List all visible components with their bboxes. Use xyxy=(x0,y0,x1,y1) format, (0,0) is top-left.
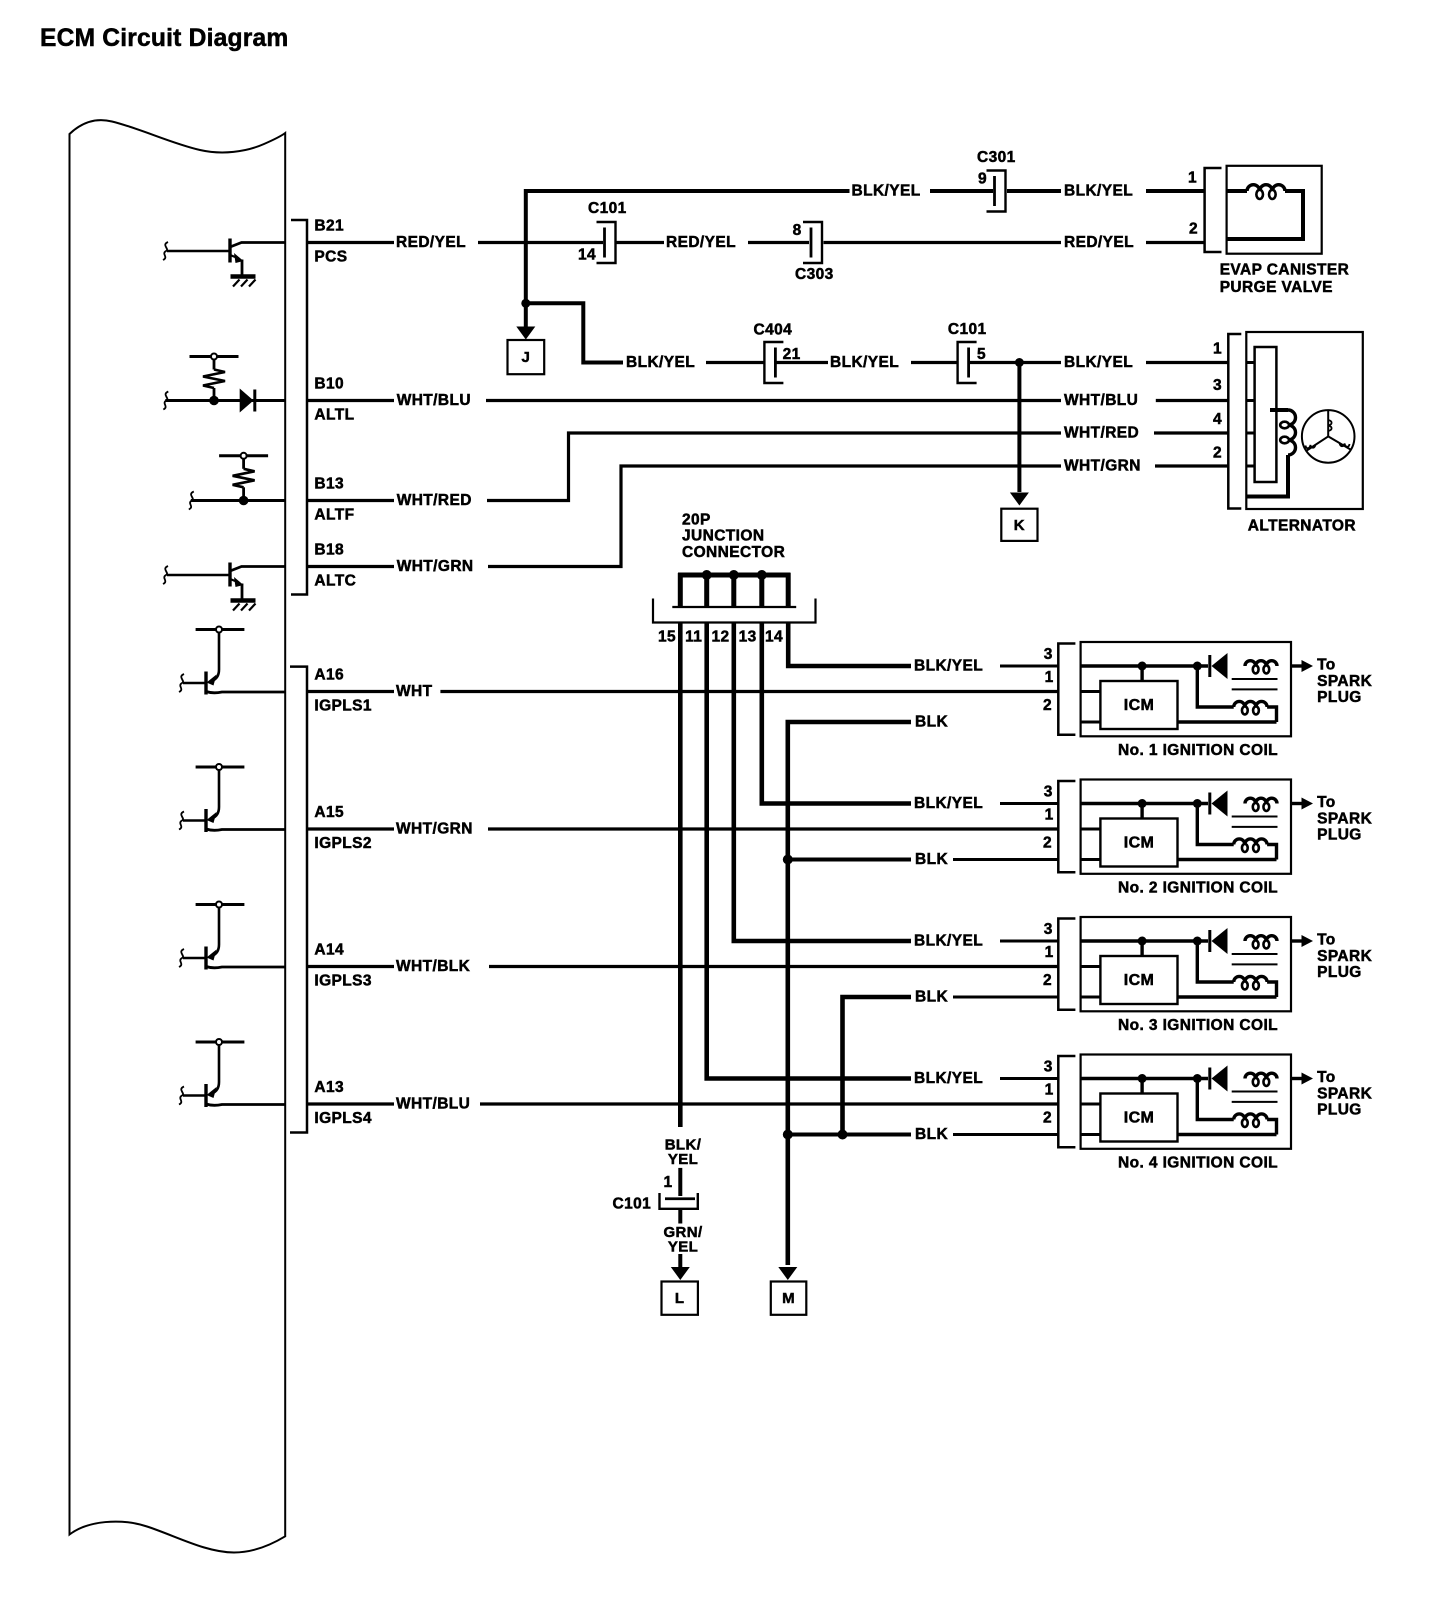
secondary winding (coil 4) xyxy=(1197,1079,1276,1135)
label WHT/GRN xyxy=(1064,458,1141,475)
junction node (bus pin 13) xyxy=(757,570,767,580)
junction node (primary winding feed, coil 3) xyxy=(1193,937,1202,946)
label No. 4 IGNITION COIL xyxy=(1118,1154,1278,1171)
pin label A16 / IGPLS1 xyxy=(314,667,372,715)
svg-text:B13: B13 xyxy=(314,476,344,493)
label WHT/BLU xyxy=(397,392,471,409)
wire BLK/YEL C404 to C101 xyxy=(911,361,958,364)
ground rail (coil 3) xyxy=(1081,996,1277,999)
label BLK (coil 3) xyxy=(915,989,948,1006)
wire A13 WHT/BLU to No.4 coil pin 1 xyxy=(308,1102,1058,1105)
svg-text:SPARK: SPARK xyxy=(1317,948,1373,965)
junction node (bus pin 11) xyxy=(702,570,712,580)
svg-text:M: M xyxy=(782,1290,795,1307)
connector box M xyxy=(771,1282,807,1315)
label WHT/BLU xyxy=(396,1096,470,1113)
pin number 2 xyxy=(1213,444,1222,461)
high tension lead arrow (coil 3) xyxy=(1291,935,1313,947)
wire pin 14 BLK/YEL to No.1 coil xyxy=(788,624,911,667)
label BLK/YEL (coil 4) xyxy=(914,1070,983,1087)
svg-text:WHT/BLU: WHT/BLU xyxy=(1064,392,1138,409)
svg-text:2: 2 xyxy=(1043,972,1052,989)
label WHT/GRN xyxy=(396,821,473,838)
wire A16 WHT to No.1 coil pin 1 xyxy=(308,690,1058,693)
ICM module box (coil 1) xyxy=(1100,681,1177,729)
label GRN/YEL xyxy=(663,1224,703,1255)
ICM feed wire (coil 3) xyxy=(1140,941,1143,956)
transistor Q4 (IGPLS2 driver, A15) xyxy=(179,764,285,832)
label BLK/YEL xyxy=(1064,354,1133,371)
pin label B13 / ALTF xyxy=(314,476,354,524)
ICM module box (coil 3) xyxy=(1100,956,1177,1004)
svg-text:WHT/BLU: WHT/BLU xyxy=(397,392,471,409)
junction node (bus pin 12) xyxy=(729,570,739,580)
No.3 ignition coil box xyxy=(1081,917,1291,1011)
svg-text:No. 2 IGNITION COIL: No. 2 IGNITION COIL xyxy=(1118,879,1278,896)
wire GRN/YEL to L xyxy=(678,1209,682,1224)
svg-text:14: 14 xyxy=(578,247,596,264)
svg-text:C101: C101 xyxy=(588,200,627,217)
svg-text:PCS: PCS xyxy=(314,248,347,265)
svg-text:A15: A15 xyxy=(314,804,344,821)
wire BLK/YEL into coil 4 xyxy=(1000,1077,1058,1080)
svg-text:To: To xyxy=(1317,794,1336,811)
pin number 1 xyxy=(1213,341,1222,358)
transistor Q6 (IGPLS4 driver, A13) xyxy=(179,1039,285,1107)
junction connector bus bar xyxy=(672,573,796,607)
svg-text:BLK/YEL: BLK/YEL xyxy=(830,354,899,371)
ICM feed wire (coil 2) xyxy=(1140,804,1143,819)
svg-text:2: 2 xyxy=(1043,835,1052,852)
primary winding (coil 4) xyxy=(1245,1073,1277,1086)
svg-text:C303: C303 xyxy=(795,266,834,283)
svg-text:BLK/YEL: BLK/YEL xyxy=(914,1070,983,1087)
svg-text:WHT/GRN: WHT/GRN xyxy=(396,821,473,838)
ICM feed wire (coil 1) xyxy=(1140,666,1143,681)
connector box L xyxy=(662,1282,698,1315)
primary winding (coil 1) xyxy=(1245,661,1277,674)
svg-text:9: 9 xyxy=(978,171,987,188)
secondary winding (coil 3) xyxy=(1197,941,1276,997)
junction node (ICM feed, coil 2) xyxy=(1138,799,1147,808)
svg-text:1: 1 xyxy=(664,1174,673,1191)
pin label A14 / IGPLS3 xyxy=(314,942,372,990)
transistor Q1 (PCS driver, B21) xyxy=(163,239,285,276)
high tension lead arrow (coil 4) xyxy=(1291,1073,1313,1085)
label To SPARK PLUG (coil 3) xyxy=(1317,931,1373,981)
junction connector shell xyxy=(653,599,816,623)
svg-text:15: 15 xyxy=(658,629,676,646)
svg-text:3: 3 xyxy=(1044,1059,1053,1076)
label WHT/RED xyxy=(397,492,472,509)
ECM module outline (torn box) xyxy=(70,120,286,1552)
svg-text:C101: C101 xyxy=(948,321,987,338)
connector bracket (No.3 ignition coil) xyxy=(1058,919,1075,1010)
arrow to connector L xyxy=(671,1254,690,1280)
diode (coil 4) xyxy=(1210,1066,1228,1092)
wire pin 12 BLK/YEL to No.3 coil xyxy=(734,624,911,942)
primary winding (coil 3) xyxy=(1245,936,1277,949)
diode (coil 2) xyxy=(1210,791,1228,817)
svg-text:C404: C404 xyxy=(754,322,793,339)
label RED/YEL xyxy=(1064,234,1134,251)
svg-text:K: K xyxy=(1014,517,1025,534)
label No. 2 IGNITION COIL xyxy=(1118,879,1278,896)
high tension lead arrow (coil 2) xyxy=(1291,798,1313,810)
junction node (coil 3 BLK joins bus) xyxy=(838,1130,848,1140)
svg-text:WHT/BLK: WHT/BLK xyxy=(396,958,471,975)
connector bracket (EVAP valve) xyxy=(1205,168,1222,252)
title: ECM Circuit Diagram xyxy=(40,25,288,52)
label To SPARK PLUG (coil 1) xyxy=(1317,656,1373,706)
svg-text:ALTL: ALTL xyxy=(314,406,354,423)
label WHT/BLK xyxy=(396,958,471,975)
pin number 3 (coil 1) xyxy=(1044,646,1053,663)
wire BLK/YEL into coil 2 xyxy=(1000,802,1058,805)
svg-text:1: 1 xyxy=(1045,944,1054,961)
svg-text:No. 3 IGNITION COIL: No. 3 IGNITION COIL xyxy=(1118,1017,1278,1034)
wire pin 15 BLK/YEL down to C101 xyxy=(678,624,683,1128)
connector C404 pin 21 xyxy=(754,322,801,384)
ground rail (coil 2) xyxy=(1081,858,1277,861)
pin number 3 xyxy=(1213,377,1222,394)
wire A14 WHT/BLK to No.3 coil pin 1 xyxy=(308,965,1058,968)
svg-text:B10: B10 xyxy=(314,376,344,393)
svg-text:No. 1 IGNITION COIL: No. 1 IGNITION COIL xyxy=(1118,742,1278,759)
svg-text:B21: B21 xyxy=(314,218,344,235)
svg-text:IGPLS2: IGPLS2 xyxy=(314,835,372,852)
svg-text:IGPLS1: IGPLS1 xyxy=(314,697,372,714)
pin number 1 xyxy=(664,1174,673,1191)
label To SPARK PLUG (coil 2) xyxy=(1317,794,1373,844)
pin number 1 (coil 1) xyxy=(1045,669,1054,686)
primary power rail (coil 4) xyxy=(1081,1077,1208,1080)
pin number 3 (coil 3) xyxy=(1044,921,1053,938)
svg-text:13: 13 xyxy=(739,629,757,646)
primary winding (coil 2) xyxy=(1245,798,1277,811)
label To SPARK PLUG (coil 4) xyxy=(1317,1069,1373,1119)
svg-text:WHT/BLU: WHT/BLU xyxy=(396,1096,470,1113)
svg-text:WHT/RED: WHT/RED xyxy=(1064,425,1139,442)
rotor field coil (alternator) xyxy=(1246,410,1295,497)
label EVAP CANISTER PURGE VALVE xyxy=(1220,262,1350,296)
svg-text:EVAP CANISTER: EVAP CANISTER xyxy=(1220,262,1350,279)
core lines (coil 3) xyxy=(1232,954,1278,964)
svg-text:14: 14 xyxy=(765,629,783,646)
svg-text:To: To xyxy=(1317,931,1336,948)
ground (Q2 emitter) xyxy=(231,601,256,611)
EVAP purge valve box xyxy=(1227,166,1322,254)
wire pin 11 BLK/YEL to No.4 coil xyxy=(707,624,911,1079)
svg-text:2: 2 xyxy=(1043,1110,1052,1127)
svg-text:BLK/YEL: BLK/YEL xyxy=(914,933,983,950)
pin number 3 (coil 2) xyxy=(1044,784,1053,801)
svg-text:ALTF: ALTF xyxy=(314,506,354,523)
No.4 ignition coil box xyxy=(1081,1055,1291,1149)
svg-text:BLK/YEL: BLK/YEL xyxy=(626,354,695,371)
No.2 ignition coil box xyxy=(1081,780,1291,874)
connector C101 pin 1 (bottom) xyxy=(613,1193,698,1212)
svg-text:1: 1 xyxy=(1045,806,1054,823)
transistor Q5 (IGPLS3 driver, A14) xyxy=(179,902,285,970)
svg-text:RED/YEL: RED/YEL xyxy=(666,234,736,251)
pin label B10 / ALTL xyxy=(314,376,354,424)
svg-text:JUNCTION: JUNCTION xyxy=(682,528,764,545)
pin number 12 xyxy=(712,629,730,646)
svg-text:WHT/GRN: WHT/GRN xyxy=(1064,458,1141,475)
label BLK/YEL xyxy=(852,183,921,200)
svg-text:BLK/YEL: BLK/YEL xyxy=(1064,354,1133,371)
svg-text:BLK: BLK xyxy=(915,989,948,1006)
svg-text:BLK/YEL: BLK/YEL xyxy=(852,183,921,200)
label BLK/YEL (coil 2) xyxy=(914,795,983,812)
wire B21 RED/YEL to C101 xyxy=(308,241,664,244)
svg-text:YEL: YEL xyxy=(668,1151,698,1168)
svg-text:YEL: YEL xyxy=(668,1239,698,1256)
label WHT xyxy=(396,683,433,700)
svg-text:1: 1 xyxy=(1213,341,1222,358)
pin label B21 / PCS xyxy=(314,218,347,266)
wire B18 WHT/GRN to alternator pin 2 xyxy=(308,466,1228,567)
svg-text:1: 1 xyxy=(1188,170,1197,187)
connector bracket (No.2 ignition coil) xyxy=(1058,781,1075,872)
resistor R2 (B13 pull-up) xyxy=(219,453,268,506)
label WHT/RED xyxy=(1064,425,1139,442)
core lines (coil 2) xyxy=(1232,817,1278,827)
junction node (coil 2 BLK) xyxy=(783,855,793,865)
svg-text:RED/YEL: RED/YEL xyxy=(1064,234,1134,251)
svg-text:ALTERNATOR: ALTERNATOR xyxy=(1248,517,1356,534)
svg-text:SPARK: SPARK xyxy=(1317,811,1373,828)
label ALTERNATOR xyxy=(1248,517,1356,534)
resistor R1 (B10 pull-up) xyxy=(190,354,239,406)
transistor Q2 (ALTC driver, B18) xyxy=(163,563,285,600)
svg-text:ECM Circuit Diagram: ECM Circuit Diagram xyxy=(40,25,288,52)
svg-text:8: 8 xyxy=(793,222,802,239)
svg-text:IGPLS3: IGPLS3 xyxy=(314,972,372,989)
ICM module box (coil 4) xyxy=(1100,1094,1177,1142)
connector bracket (No.4 ignition coil) xyxy=(1058,1056,1075,1147)
svg-text:WHT/GRN: WHT/GRN xyxy=(397,558,474,575)
svg-text:WHT/RED: WHT/RED xyxy=(397,492,472,509)
junction node (branch to K) xyxy=(1015,358,1024,367)
trigger wire into ICM (coil 3) xyxy=(1081,965,1101,968)
pin number 1 xyxy=(1188,170,1197,187)
wire RED/YEL C303 to EVAP valve xyxy=(824,241,1205,244)
ECM pin bracket B21-B18 xyxy=(291,220,307,595)
pin number 1 (coil 2) xyxy=(1045,806,1054,823)
label RED/YEL xyxy=(396,234,466,251)
label BLK/YEL (coil 1) xyxy=(914,658,983,675)
svg-text:4: 4 xyxy=(1213,411,1222,428)
core lines (coil 4) xyxy=(1232,1092,1278,1102)
pin number 2 xyxy=(1189,221,1198,238)
svg-text:RED/YEL: RED/YEL xyxy=(396,234,466,251)
stator winding circle (alternator) xyxy=(1302,410,1355,463)
pin number 4 xyxy=(1213,411,1222,428)
secondary winding (coil 2) xyxy=(1197,804,1276,860)
svg-text:3: 3 xyxy=(1213,377,1222,394)
pin number 3 (coil 4) xyxy=(1044,1059,1053,1076)
wire A15 WHT/GRN to No.2 coil pin 1 xyxy=(308,827,1058,830)
svg-text:ICM: ICM xyxy=(1124,697,1155,714)
junction node (ICM feed, coil 3) xyxy=(1138,937,1147,946)
pin label B18 / ALTC xyxy=(314,542,356,590)
primary power rail (coil 3) xyxy=(1081,939,1208,942)
wire B10 WHT/BLU to alternator pin 3 xyxy=(308,399,1228,402)
svg-text:21: 21 xyxy=(783,346,801,363)
pin label A15 / IGPLS2 xyxy=(314,804,372,852)
connector bracket (No.1 ignition coil) xyxy=(1058,644,1075,735)
pin number 2 (coil 4) xyxy=(1043,1110,1052,1127)
pin number 1 (coil 4) xyxy=(1045,1081,1054,1098)
svg-text:PLUG: PLUG xyxy=(1317,689,1362,706)
label No. 1 IGNITION COIL xyxy=(1118,742,1278,759)
connector box J xyxy=(508,340,545,374)
diode D1 (B10) xyxy=(163,389,285,413)
pin number 14 xyxy=(765,629,783,646)
label BLK/YEL xyxy=(830,354,899,371)
pin number 2 (coil 2) xyxy=(1043,835,1052,852)
svg-text:To: To xyxy=(1317,656,1336,673)
connector C303 pin 8 xyxy=(793,222,834,283)
wire BLK/YEL C101 to alternator pin 1 xyxy=(969,361,1229,364)
svg-text:ICM: ICM xyxy=(1124,1110,1155,1127)
wire BLK/YEL into coil 3 xyxy=(1000,940,1058,943)
core lines (coil 1) xyxy=(1232,679,1278,689)
svg-text:3: 3 xyxy=(1044,646,1053,663)
svg-text:2: 2 xyxy=(1189,221,1198,238)
pin number 2 (coil 3) xyxy=(1043,972,1052,989)
svg-text:CONNECTOR: CONNECTOR xyxy=(682,544,785,561)
junction node (ICM feed, coil 1) xyxy=(1138,662,1147,671)
ICM module box (coil 2) xyxy=(1100,819,1177,867)
label BLK (coil 4) xyxy=(915,1126,948,1143)
svg-text:A13: A13 xyxy=(314,1079,344,1096)
svg-text:WHT: WHT xyxy=(396,683,433,700)
svg-text:BLK: BLK xyxy=(915,1126,948,1143)
svg-text:1: 1 xyxy=(1045,1081,1054,1098)
solenoid coil (EVAP valve) xyxy=(1227,185,1303,239)
svg-text:BLK: BLK xyxy=(915,714,948,731)
ICM feed wire (coil 4) xyxy=(1140,1079,1143,1094)
trigger wire into ICM (coil 1) xyxy=(1081,690,1101,693)
svg-text:BLK/YEL: BLK/YEL xyxy=(1064,183,1133,200)
svg-text:To: To xyxy=(1317,1069,1336,1086)
diode (coil 1) xyxy=(1210,653,1228,679)
svg-text:IGPLS4: IGPLS4 xyxy=(314,1110,372,1127)
pin number 11 xyxy=(685,629,702,646)
svg-text:2: 2 xyxy=(1043,697,1052,714)
svg-text:B18: B18 xyxy=(314,542,344,559)
svg-text:20P: 20P xyxy=(682,512,711,529)
voltage regulator bar (alternator) xyxy=(1255,347,1277,482)
svg-text:C101: C101 xyxy=(613,1195,652,1212)
svg-text:C301: C301 xyxy=(977,149,1016,166)
junction node (primary winding feed, coil 2) xyxy=(1193,799,1202,808)
pin number 15 xyxy=(658,629,676,646)
wire pin 15 to C101 xyxy=(678,1168,682,1196)
ground rail (coil 4) xyxy=(1081,1133,1277,1136)
arrow to connector K xyxy=(1010,363,1029,506)
label RED/YEL xyxy=(666,234,736,251)
label WHT/GRN xyxy=(397,558,474,575)
wire BLK/YEL power rail to C301 xyxy=(526,191,1205,303)
svg-text:J: J xyxy=(521,349,530,366)
junction node (ICM feed, coil 4) xyxy=(1138,1074,1147,1083)
junction node (BLK/YEL split to J) xyxy=(521,299,530,308)
svg-text:1: 1 xyxy=(1045,669,1054,686)
svg-text:PLUG: PLUG xyxy=(1317,827,1362,844)
svg-text:5: 5 xyxy=(977,346,986,363)
wire RED/YEL C101 to C303 xyxy=(748,241,809,244)
diode (coil 3) xyxy=(1210,928,1228,954)
pin stubs (alternator) xyxy=(1246,363,1255,467)
wire BLK coil 4 xyxy=(788,1133,1059,1137)
arrow to connector M xyxy=(778,1267,797,1280)
label BLK/YEL xyxy=(626,354,695,371)
connector bracket (alternator) xyxy=(1228,334,1241,509)
ECM pin bracket A16-A13 xyxy=(290,667,307,1133)
wire BLK coil 2 xyxy=(792,858,1058,862)
junction node (coil 4 BLK) xyxy=(783,1130,793,1140)
arrow to connector J xyxy=(516,303,535,339)
svg-text:ICM: ICM xyxy=(1124,835,1155,852)
connector C101 pin 5 xyxy=(948,321,987,383)
svg-text:PLUG: PLUG xyxy=(1317,1102,1362,1119)
No.1 ignition coil box xyxy=(1081,642,1291,736)
wire BLK/YEL branch to C404 xyxy=(526,303,828,362)
svg-text:ALTC: ALTC xyxy=(314,572,356,589)
junction node (primary winding feed, coil 1) xyxy=(1193,662,1202,671)
svg-text:BLK: BLK xyxy=(915,851,948,868)
ground (Q1 emitter) xyxy=(231,277,256,287)
primary power rail (coil 2) xyxy=(1081,802,1208,805)
junction node (primary winding feed, coil 4) xyxy=(1193,1074,1202,1083)
transistor Q3 (IGPLS1 driver, A16) xyxy=(179,627,285,695)
high tension lead arrow (coil 1) xyxy=(1291,660,1313,672)
svg-text:PURGE VALVE: PURGE VALVE xyxy=(1220,279,1333,296)
wire BLK coil 3 xyxy=(843,997,1059,1135)
svg-text:2: 2 xyxy=(1213,444,1222,461)
primary power rail (coil 1) xyxy=(1081,664,1208,667)
wire BLK ground bus (coil 1) to M xyxy=(788,722,911,1265)
trigger wire into ICM (coil 2) xyxy=(1081,828,1101,831)
label BLK/YEL (coil 3) xyxy=(914,933,983,950)
secondary winding (coil 1) xyxy=(1197,666,1276,722)
pin number 2 (coil 1) xyxy=(1043,697,1052,714)
svg-text:SPARK: SPARK xyxy=(1317,1086,1373,1103)
svg-text:11: 11 xyxy=(685,629,702,646)
svg-text:3: 3 xyxy=(1044,784,1053,801)
svg-text:PLUG: PLUG xyxy=(1317,964,1362,981)
ground rail (coil 1) xyxy=(1081,721,1277,724)
connector box K xyxy=(1001,509,1037,541)
svg-text:SPARK: SPARK xyxy=(1317,673,1373,690)
label BLK/YEL (pin 15 wire) xyxy=(665,1137,702,1168)
wire BLK/YEL into coil 1 xyxy=(1000,665,1058,668)
svg-text:L: L xyxy=(675,1290,685,1307)
wire pin 13 BLK/YEL to No.2 coil xyxy=(762,624,911,804)
connector C301 pin 9 xyxy=(977,149,1016,212)
svg-text:BLK/YEL: BLK/YEL xyxy=(914,658,983,675)
svg-text:3: 3 xyxy=(1044,921,1053,938)
trigger wire into ICM (coil 4) xyxy=(1081,1103,1101,1106)
alternator box xyxy=(1246,332,1363,509)
svg-text:BLK/YEL: BLK/YEL xyxy=(914,795,983,812)
svg-text:A14: A14 xyxy=(314,942,344,959)
label BLK (coil 2) xyxy=(915,851,948,868)
